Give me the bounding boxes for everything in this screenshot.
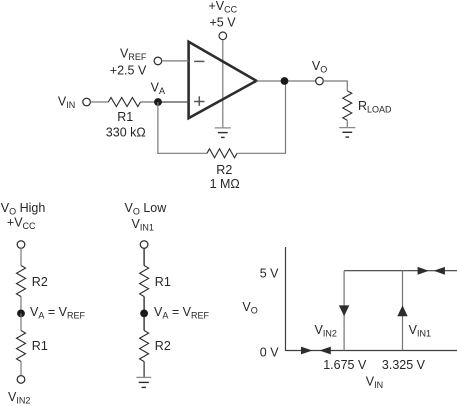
wire RLOAD to ground (346, 120, 348, 127)
label +VCC supply (209, 0, 238, 29)
resistor RLOAD (343, 91, 392, 121)
resistor R1 divider2 (140, 266, 171, 297)
label VO Low divider (125, 201, 168, 233)
node VA divider2 (140, 305, 209, 321)
graph rising transition at 3.325V (402, 271, 404, 351)
arrow up on rising transition (397, 305, 407, 316)
graph y-axis (285, 247, 287, 351)
svg-text:3.325 V: 3.325 V (382, 358, 426, 372)
terminal VIN (83, 98, 91, 106)
graph falling transition at 1.675V (343, 271, 345, 351)
terminal +VCC (219, 32, 227, 40)
svg-text:VO Low: VO Low (125, 201, 168, 217)
svg-text:R2: R2 (216, 163, 232, 177)
wire feedback right segment (237, 81, 286, 153)
svg-text:R2: R2 (155, 339, 171, 353)
wire R1 to non-inverting input (140, 101, 154, 103)
resistor R1 divider1 (17, 331, 48, 362)
svg-text:5 V: 5 V (260, 266, 279, 280)
wire R2 to ground divider2 (143, 362, 145, 378)
wire R2 to node divider1 (20, 297, 22, 314)
wire op-amp output (256, 80, 316, 82)
terminal VREF (154, 57, 162, 65)
svg-text:VO High: VO High (1, 201, 46, 217)
wire node to R2 divider2 (143, 313, 145, 330)
arrow left on 0V line (319, 347, 330, 355)
arrow right on 5V line (418, 267, 429, 275)
wire VO to RLOAD (323, 81, 347, 91)
terminal VIN1 divider2 (140, 241, 148, 249)
resistor R2 divider1 (17, 266, 48, 297)
arrow left on 5V line (434, 267, 445, 275)
label VO High divider (1, 201, 46, 231)
wire to R1 divider2 (143, 248, 145, 265)
node output junction (281, 77, 289, 85)
svg-text:+5 V: +5 V (210, 15, 237, 29)
wire VCC to ground through op-amp (222, 40, 224, 128)
op-amp U1 (189, 42, 257, 118)
svg-text:+2.5 V: +2.5 V (110, 64, 147, 78)
wire VREF to inverting input (162, 60, 189, 62)
svg-text:330 kΩ: 330 kΩ (106, 126, 146, 140)
wire R1 to node divider2 (143, 297, 145, 314)
terminal VO (316, 77, 324, 85)
arrow right on 0V line (301, 347, 312, 355)
svg-text:1.675 V: 1.675 V (323, 358, 367, 372)
graph 5V level line (344, 270, 457, 272)
terminal VIN2 divider1 (17, 376, 25, 384)
resistor R2 (207, 149, 240, 191)
terminal +VCC divider1 (17, 241, 25, 249)
ground below op-amp (215, 128, 231, 137)
arrow down on falling transition (339, 305, 349, 316)
wire VA down to feedback (157, 102, 159, 154)
svg-text:R1: R1 (117, 110, 133, 124)
svg-text:R2: R2 (32, 275, 48, 289)
label VREF (110, 47, 147, 78)
wire node to R1 divider1 (20, 313, 22, 330)
resistor R2 divider2 (140, 331, 171, 362)
wire to R2 divider1 (20, 248, 22, 265)
resistor R1 (106, 98, 146, 140)
node VA (151, 81, 165, 106)
svg-text:1 MΩ: 1 MΩ (210, 177, 240, 191)
graph x-axis 0V line (286, 350, 457, 352)
node VA divider1 (17, 305, 85, 321)
svg-text:R1: R1 (32, 339, 48, 353)
ground below RLOAD (339, 128, 355, 138)
wire feedback left segment (157, 152, 207, 154)
svg-text:R1: R1 (155, 275, 171, 289)
svg-text:0 V: 0 V (260, 346, 279, 360)
ground divider2 (136, 377, 151, 387)
wire VIN to R1 (90, 101, 108, 103)
wire R1 to terminal divider1 (20, 362, 22, 376)
